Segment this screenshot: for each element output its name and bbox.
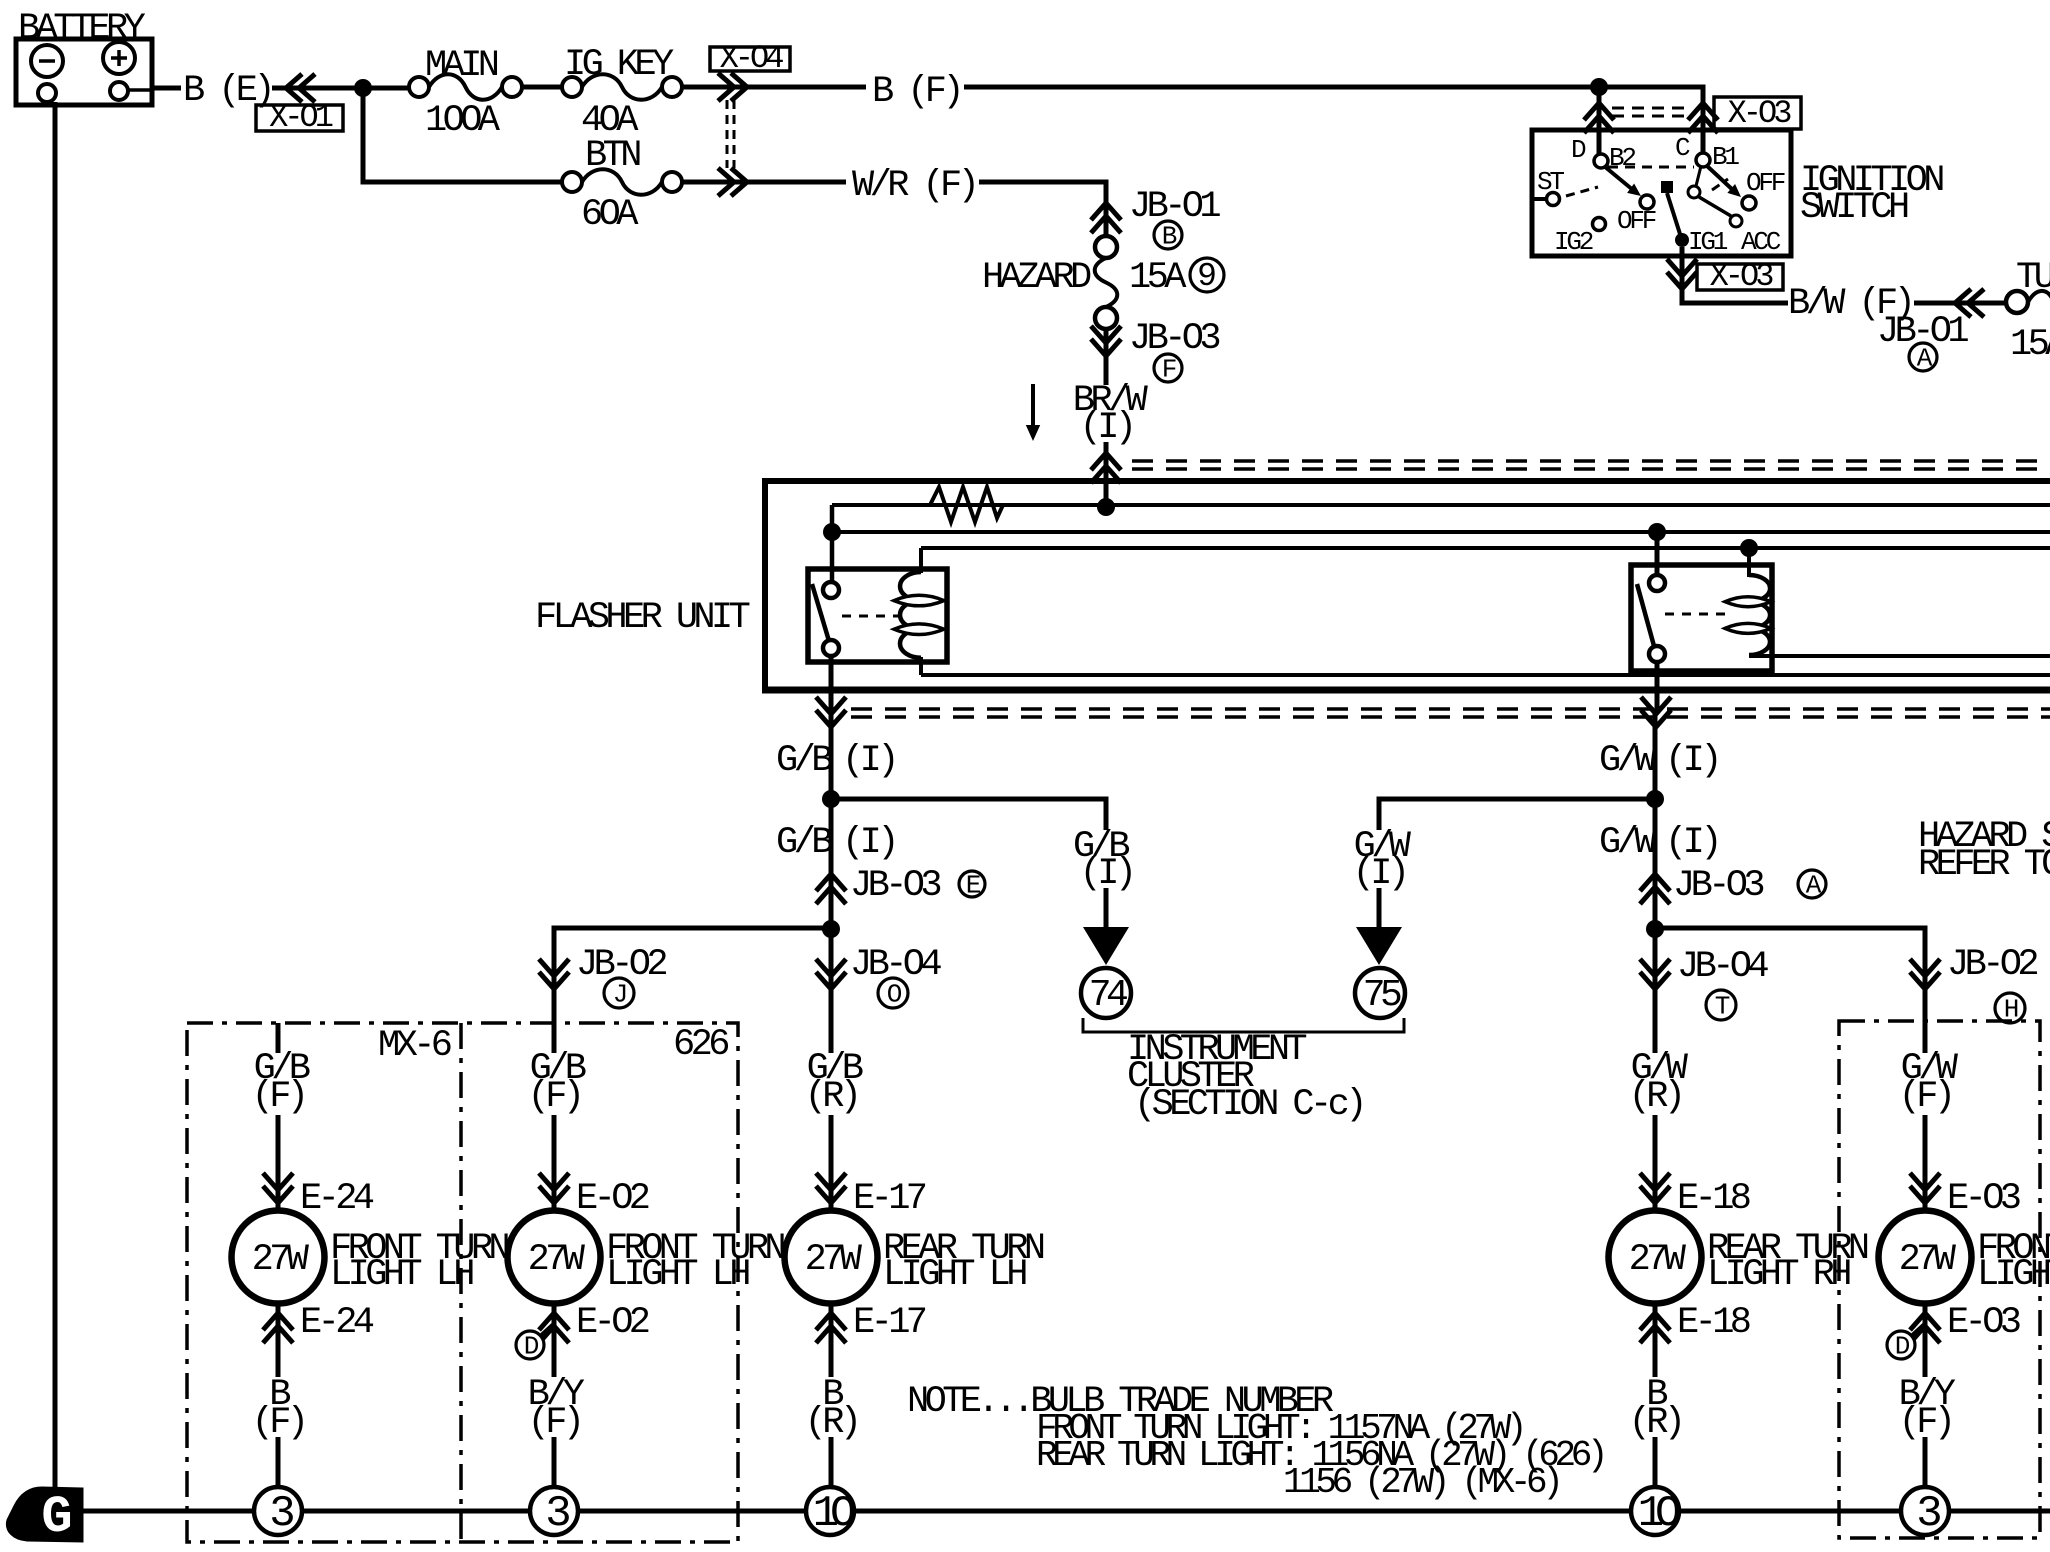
svg-text:(I): (I)	[842, 740, 895, 782]
svg-text:27W: 27W	[1899, 1239, 1957, 1281]
svg-text:JB-O4: JB-O4	[1677, 946, 1768, 988]
svg-text:IG2: IG2	[1554, 227, 1593, 257]
svg-text:G/W: G/W	[1599, 740, 1657, 782]
svg-text:ACC: ACC	[1741, 227, 1781, 257]
svg-text:OFF: OFF	[1746, 168, 1785, 198]
svg-text:X-O4: X-O4	[720, 40, 784, 77]
svg-text:9: 9	[1197, 258, 1217, 295]
svg-text:(I): (I)	[1665, 740, 1718, 782]
svg-text:(I): (I)	[1665, 822, 1718, 864]
svg-text:HAZARD: HAZARD	[982, 257, 1091, 299]
svg-text:E-24: E-24	[300, 1302, 374, 1344]
svg-text:E-O2: E-O2	[576, 1302, 649, 1344]
svg-text:BTN: BTN	[585, 135, 640, 177]
svg-text:E-18: E-18	[1677, 1302, 1750, 1344]
svg-text:G/B: G/B	[776, 740, 832, 782]
svg-text:27W: 27W	[252, 1239, 310, 1281]
svg-text:E-O3: E-O3	[1947, 1178, 2020, 1220]
svg-text:(R): (R)	[805, 1076, 858, 1118]
svg-text:X-O3: X-O3	[1710, 258, 1774, 295]
svg-text:(SECTION C-c): (SECTION C-c)	[1134, 1084, 1363, 1126]
svg-text:LIGHT LH: LIGHT LH	[883, 1254, 1026, 1296]
svg-text:G/B: G/B	[776, 822, 832, 864]
svg-text:TU: TU	[2016, 257, 2050, 299]
svg-text:1OOA: 1OOA	[425, 100, 501, 142]
svg-text:D: D	[1571, 135, 1586, 165]
svg-text:15A: 15A	[2010, 324, 2050, 366]
svg-text:626: 626	[673, 1024, 728, 1066]
svg-text:G: G	[41, 1488, 72, 1547]
svg-text:27W: 27W	[1629, 1239, 1687, 1281]
svg-text:27W: 27W	[805, 1239, 863, 1281]
svg-text:FLASHER UNIT: FLASHER UNIT	[535, 597, 750, 639]
svg-text:JB-O3: JB-O3	[1673, 865, 1763, 907]
svg-text:(F): (F)	[252, 1076, 305, 1118]
svg-text:F: F	[1162, 355, 1176, 385]
svg-text:LIGHT RH: LIGHT RH	[1977, 1254, 2050, 1296]
svg-text:E-17: E-17	[853, 1178, 926, 1220]
svg-text:(R): (R)	[1629, 1076, 1682, 1118]
svg-text:B1: B1	[1712, 142, 1739, 172]
svg-text:W/R (F): W/R (F)	[852, 165, 975, 207]
svg-text:SWITCH: SWITCH	[1800, 187, 1908, 229]
svg-text:LIGHT LH: LIGHT LH	[606, 1254, 749, 1296]
svg-text:(F): (F)	[528, 1076, 581, 1118]
svg-text:MX-6: MX-6	[378, 1025, 451, 1067]
svg-text:6OA: 6OA	[581, 194, 639, 236]
svg-text:75: 75	[1363, 974, 1401, 1017]
svg-text:E-O3: E-O3	[1947, 1302, 2020, 1344]
svg-text:LIGHT RH: LIGHT RH	[1707, 1254, 1850, 1296]
svg-text:J: J	[613, 980, 626, 1010]
svg-text:27W: 27W	[528, 1239, 586, 1281]
svg-text:E-17: E-17	[853, 1302, 926, 1344]
svg-text:B (F): B (F)	[872, 71, 960, 113]
svg-text:G/W: G/W	[1599, 822, 1657, 864]
svg-text:X-O3: X-O3	[1728, 95, 1792, 132]
svg-text:E-24: E-24	[300, 1178, 374, 1220]
svg-text:OFF: OFF	[1617, 206, 1656, 236]
svg-text:LIGHT LH: LIGHT LH	[330, 1254, 473, 1296]
svg-text:JB-O2: JB-O2	[1947, 944, 2037, 986]
svg-text:MAIN: MAIN	[425, 45, 498, 87]
svg-text:C: C	[1675, 133, 1690, 163]
svg-text:IG KEY: IG KEY	[564, 44, 674, 86]
svg-text:74: 74	[1089, 974, 1127, 1017]
svg-text:E-O2: E-O2	[576, 1178, 649, 1220]
svg-text:(F): (F)	[1899, 1076, 1952, 1118]
svg-text:IG1: IG1	[1688, 227, 1728, 257]
svg-text:E-18: E-18	[1677, 1178, 1750, 1220]
svg-text:JB-O3: JB-O3	[850, 865, 940, 907]
svg-text:15A: 15A	[1129, 257, 1187, 299]
svg-text:1156 (27W) (MX-6): 1156 (27W) (MX-6)	[1283, 1462, 1558, 1503]
svg-text:X-O1: X-O1	[269, 99, 333, 136]
svg-text:(I): (I)	[842, 822, 895, 864]
svg-text:REFER TO: REFER TO	[1918, 844, 2050, 886]
